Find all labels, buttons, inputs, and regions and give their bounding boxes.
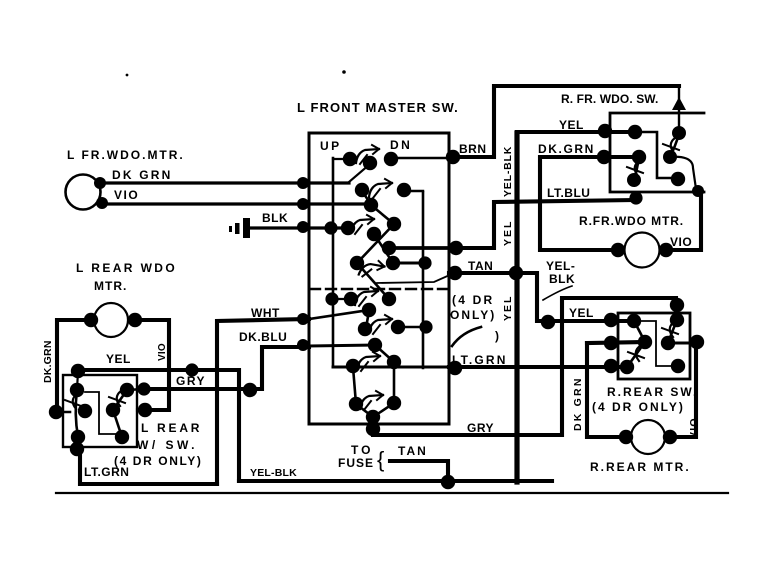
svg-text:YEL-BLK: YEL-BLK xyxy=(250,467,297,479)
node motor right xyxy=(663,430,677,444)
svg-text:YEL: YEL xyxy=(502,295,514,321)
node LT GRN terminal xyxy=(604,359,618,373)
wire Q to R link xyxy=(366,311,369,328)
node right bottom contact xyxy=(115,430,129,444)
svg-text:YEL: YEL xyxy=(569,306,594,320)
svg-text:YEL-: YEL- xyxy=(546,259,575,273)
node bus2 junction at N row xyxy=(418,256,431,269)
svg-text:L FRONT MASTER SW.: L FRONT MASTER SW. xyxy=(297,100,459,115)
svg-text:R.REAR MTR.: R.REAR MTR. xyxy=(590,460,691,474)
wire YEL-BLK jog to R REAR xyxy=(516,273,634,321)
node F on VIO row xyxy=(364,198,378,212)
node feed above box xyxy=(670,298,684,312)
wire WHT xyxy=(217,319,309,484)
svg-text:LT.GRN: LT.GRN xyxy=(452,353,508,367)
node O xyxy=(382,292,396,306)
switch S7 hook xyxy=(357,352,380,371)
svg-text:L REAR WDO: L REAR WDO xyxy=(76,261,177,275)
wire bus1 to P xyxy=(332,298,351,300)
node X3 common GRY xyxy=(366,410,380,424)
switch RR2 arm xyxy=(627,321,645,367)
node H xyxy=(341,221,355,235)
wire BRN xyxy=(449,86,679,157)
wire VIO right down xyxy=(135,320,169,410)
wire right mid to bottom xyxy=(113,410,122,437)
wire top dot down xyxy=(77,371,78,390)
node U DK BLU common xyxy=(368,338,382,352)
svg-text:GRY: GRY xyxy=(467,421,494,435)
wire D to F link xyxy=(362,191,370,203)
node dot master input DK GRN xyxy=(297,177,309,189)
node G junction on bus1 BLK row xyxy=(324,221,337,234)
node LT BLU inner contact xyxy=(627,173,641,187)
wire DK GRN down to motor xyxy=(587,343,626,437)
svg-text:DK GRN: DK GRN xyxy=(112,168,173,182)
switch R2 arm xyxy=(634,157,639,180)
node motor left xyxy=(611,243,625,257)
bus UP (internal vertical) xyxy=(332,158,335,367)
svg-text:YEL: YEL xyxy=(106,352,131,366)
svg-text:DK.GRN: DK.GRN xyxy=(538,142,595,156)
wire A to bus1 xyxy=(333,158,350,160)
wire TAN tap thin xyxy=(377,274,452,283)
svg-text:R.FR.WDO MTR.: R.FR.WDO MTR. xyxy=(579,214,684,228)
node VIO top terminal xyxy=(690,335,704,349)
wire LT BLU xyxy=(456,200,636,248)
node row2 right contact xyxy=(661,336,675,350)
node bottom left contact xyxy=(71,430,85,444)
L REAR W/SW box xyxy=(63,375,137,447)
node dot master input BLK xyxy=(297,221,309,233)
wire I to N diagonal xyxy=(374,234,393,263)
node R xyxy=(358,322,372,336)
node DK GRN terminal into box xyxy=(49,405,63,419)
node slant contact xyxy=(671,172,685,186)
master switch box xyxy=(309,133,449,424)
wire V down to X2 xyxy=(393,362,396,403)
svg-text:(4 DR: (4 DR xyxy=(452,293,494,307)
node YEL junction xyxy=(185,363,198,376)
wire VIO right vertical xyxy=(666,192,701,250)
switch LR2 hook xyxy=(109,391,125,406)
node S xyxy=(391,320,405,334)
switch S4 hook pointing right xyxy=(358,257,385,281)
switch R1 arm xyxy=(670,134,679,157)
switch S2 hook xyxy=(369,179,392,198)
wire K to L long diagonal xyxy=(357,224,394,263)
separator line xyxy=(56,492,728,494)
node L xyxy=(350,256,364,270)
node output2 xyxy=(449,241,463,255)
svg-text:YEL: YEL xyxy=(559,118,584,132)
switch RR2 hook xyxy=(628,346,644,361)
node motor left xyxy=(619,430,633,444)
node BRN output xyxy=(446,150,460,164)
dashed line (4 dr only divider) xyxy=(310,288,447,290)
node I xyxy=(367,227,381,241)
svg-text:(4 DR ONLY): (4 DR ONLY) xyxy=(592,400,685,414)
wire feed into R FR WDO SW with arrow xyxy=(678,86,680,132)
node right mid contact xyxy=(106,403,120,417)
switch RR1 arm xyxy=(668,320,677,343)
node DK GRN terminal xyxy=(597,150,611,164)
node A xyxy=(343,152,357,166)
switch S5 hook xyxy=(355,287,378,306)
node YEL inner contact xyxy=(628,125,642,139)
svg-text:VIO: VIO xyxy=(114,188,139,202)
node feed inside box xyxy=(670,313,684,327)
svg-text:GRY: GRY xyxy=(176,374,206,388)
node LT GRN inner xyxy=(620,360,634,374)
wire GRY from master to R REAR SW xyxy=(373,298,676,435)
switch R2 hook xyxy=(627,161,643,176)
node row2 left contact xyxy=(638,335,652,349)
node DK GRN inner contact xyxy=(632,150,646,164)
node LT BLU terminal under box xyxy=(629,191,642,204)
svg-text:R.REAR SW.: R.REAR SW. xyxy=(607,385,698,399)
node V xyxy=(387,355,401,369)
svg-text:BRN: BRN xyxy=(459,142,487,156)
svg-text:YEL-BLK: YEL-BLK xyxy=(502,146,514,197)
wire VIO right rear xyxy=(670,342,696,437)
node X1 xyxy=(349,397,363,411)
node M output2 tap xyxy=(382,241,396,255)
wire GRY link into box xyxy=(127,389,144,390)
wire W down to X1 xyxy=(353,367,356,404)
switch RR1 hook xyxy=(662,322,678,337)
node dot master input VIO xyxy=(297,198,309,210)
switch S8 hook xyxy=(360,391,383,410)
wire common to corner curve xyxy=(670,157,696,189)
node Q WHT common xyxy=(362,303,376,317)
wire row2 right to VIO xyxy=(668,342,697,345)
node YEL-BLK corner xyxy=(541,315,555,329)
node LT GRN output xyxy=(448,361,462,375)
wire F to K diagonal xyxy=(371,205,394,224)
svg-text:R. FR. WDO. SW.: R. FR. WDO. SW. xyxy=(561,92,659,106)
wire VIO left xyxy=(101,202,371,205)
wire S to bus2 xyxy=(398,326,426,328)
node GRY exit on box bottom xyxy=(366,422,380,436)
motor M3 L rear window motor xyxy=(94,303,128,337)
thin connector in L REAR box xyxy=(85,392,121,434)
switch LR1 hook xyxy=(65,394,81,409)
svg-text:UP: UP xyxy=(320,139,342,153)
node WHT master input xyxy=(297,313,309,325)
wire B down to DK GRN row xyxy=(349,164,370,182)
node YEL inner xyxy=(627,314,641,328)
node row2 terminal xyxy=(604,336,618,350)
node N xyxy=(386,256,400,270)
node VIO link dot xyxy=(138,403,152,417)
wire arms to X3 xyxy=(356,403,394,417)
motor M4 R rear motor xyxy=(631,420,665,454)
node TAN output xyxy=(448,266,462,280)
node B xyxy=(363,156,377,170)
node right upper contact xyxy=(120,383,134,397)
node K xyxy=(387,217,401,231)
svg-text:TAN: TAN xyxy=(468,259,493,273)
node row3 right contact xyxy=(671,359,685,373)
wire LT GRN into box xyxy=(619,366,627,369)
wire U to V arm xyxy=(375,345,394,362)
svg-text:DK.GRN: DK.GRN xyxy=(42,340,54,383)
node GRY mid junction xyxy=(243,383,257,397)
wire LT GRN bottom xyxy=(80,448,217,484)
switch S3 hook xyxy=(351,215,374,234)
svg-text:DN: DN xyxy=(390,138,412,152)
node box top inner xyxy=(70,383,84,397)
wire DK GRN stub into box xyxy=(56,411,70,414)
R FR WDO SW box (open right) xyxy=(610,113,704,192)
node bus1 junction unit4 xyxy=(325,292,338,305)
wire WHT into box slanted xyxy=(309,310,369,319)
thin connector in R REAR SW xyxy=(634,321,678,366)
ground symbol xyxy=(229,218,250,238)
wire GRY left xyxy=(144,347,309,389)
stray speck left xyxy=(126,74,129,77)
svg-text:W/ SW.: W/ SW. xyxy=(137,438,198,452)
node P xyxy=(344,292,358,306)
wire TAN to fuse xyxy=(390,461,448,482)
annotation arc xyxy=(452,327,481,346)
wire YEL right xyxy=(517,130,635,134)
svg-text:VIO: VIO xyxy=(670,235,692,249)
node dot motor terminal DK GRN xyxy=(94,177,106,189)
svg-text:BLK: BLK xyxy=(262,211,288,225)
wire BLK to master xyxy=(250,226,350,229)
node DK BLU master input xyxy=(297,339,309,351)
R REAR SW box xyxy=(618,313,690,379)
svg-text:DK.BLU: DK.BLU xyxy=(239,330,287,344)
node YEL terminal xyxy=(604,313,618,327)
svg-text:MTR.: MTR. xyxy=(94,279,127,293)
wire output2 LT BLU heavy xyxy=(389,246,456,250)
wire DK GRN right xyxy=(540,157,639,250)
svg-text:BLK: BLK xyxy=(549,272,575,286)
node D xyxy=(355,183,369,197)
node RFRSW common xyxy=(663,150,677,164)
node YEL terminal xyxy=(598,124,612,138)
annotation curve to corner xyxy=(543,286,572,300)
svg-text:LT.GRN: LT.GRN xyxy=(84,465,129,479)
node motor left xyxy=(84,313,98,327)
arrowhead feed xyxy=(672,97,686,110)
node bus2 junction unit5 xyxy=(419,320,432,333)
wire DK BLU row inside xyxy=(309,345,375,346)
node W on LT GRN row xyxy=(346,359,360,373)
switch LR2 arm xyxy=(113,390,127,410)
node motor right xyxy=(128,313,142,327)
svg-text:TAN: TAN xyxy=(398,444,428,458)
svg-text:YEL: YEL xyxy=(502,220,514,246)
stray speck center xyxy=(342,70,346,74)
node mid left xyxy=(78,404,92,418)
wire DK GRN left xyxy=(99,181,349,184)
svg-text:VIO: VIO xyxy=(157,343,168,361)
motor M2 R front window motor xyxy=(625,233,660,268)
wire C to BRN output xyxy=(391,157,449,159)
switch R1 hook xyxy=(663,138,679,153)
svg-text:{: { xyxy=(377,447,384,472)
node TAN trunk junction xyxy=(509,266,523,280)
switch S1 hook xyxy=(356,145,379,164)
thin connector L shape xyxy=(635,132,671,178)
svg-text:LT.BLU: LT.BLU xyxy=(547,186,590,200)
svg-text:FUSE: FUSE xyxy=(338,456,374,470)
node X2 xyxy=(387,396,401,410)
wire YEL from box top xyxy=(78,370,239,481)
wire L to O diagonal xyxy=(357,263,389,299)
wire LT GRN right xyxy=(449,365,619,369)
node dot motor terminal VIO xyxy=(96,197,108,209)
node RFRSW feed contact xyxy=(672,126,686,140)
node fuse junction xyxy=(441,475,455,489)
svg-text:): ) xyxy=(495,329,500,343)
node YEL box top terminal xyxy=(71,364,85,378)
wire DK GRN left down xyxy=(57,320,91,412)
node C xyxy=(384,152,398,166)
node box corner xyxy=(692,185,704,197)
wire X3 to GRY exit xyxy=(372,417,375,431)
bus DN (internal vertical) xyxy=(422,192,425,368)
switch LR1 arm xyxy=(76,390,78,437)
motor M1 L front window motor xyxy=(66,175,101,210)
svg-text:L REAR: L REAR xyxy=(141,421,202,435)
switch S6 hook xyxy=(369,315,392,334)
wire YEL-BLK trunk vertical xyxy=(514,133,519,482)
node bottom terminal xyxy=(70,442,84,456)
node GRY terminal xyxy=(137,382,150,395)
node motor right xyxy=(659,243,673,257)
svg-text:WHT: WHT xyxy=(251,306,280,320)
wire YEL-BLK bottom xyxy=(239,479,552,483)
svg-text:TO: TO xyxy=(351,443,373,457)
wire E to bus2 xyxy=(404,190,423,192)
wire N to bus2 xyxy=(393,262,425,265)
wire bus1 to LT GRN output xyxy=(333,366,455,369)
node E xyxy=(397,183,411,197)
wire row2 from DK GRN vert xyxy=(587,342,645,343)
svg-text:ONLY): ONLY) xyxy=(450,308,496,322)
wire TAN xyxy=(449,271,517,275)
svg-text:DK GRN: DK GRN xyxy=(572,376,584,431)
svg-text:L FR.WDO.MTR.: L FR.WDO.MTR. xyxy=(67,148,185,162)
